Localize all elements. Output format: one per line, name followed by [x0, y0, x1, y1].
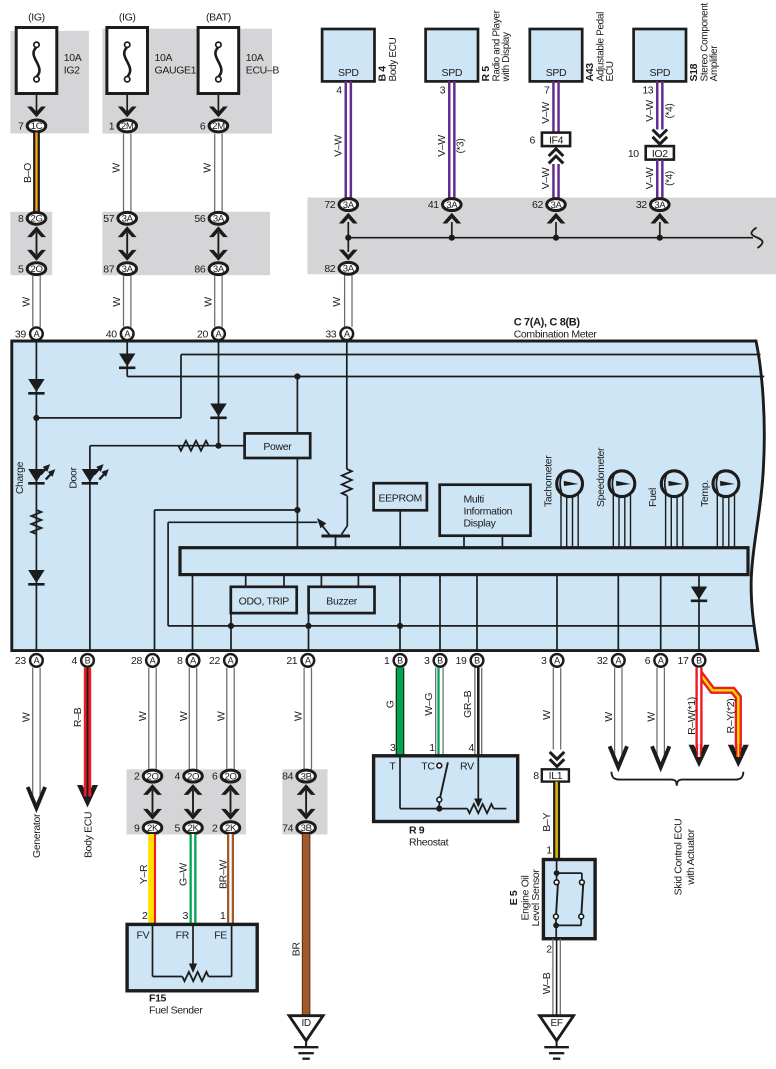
- wire W-B: [553, 939, 560, 1016]
- svg-text:G–W: G–W: [178, 863, 190, 886]
- ECU box R 5: [426, 29, 478, 81]
- label Rheostat: [409, 837, 449, 849]
- svg-text:3A: 3A: [446, 200, 458, 211]
- junction dot: [657, 235, 663, 241]
- svg-text:A: A: [228, 656, 234, 666]
- terminal label FR: [176, 929, 190, 941]
- meter terminal 23 A (bottom): [15, 654, 43, 667]
- meter terminal 8 A (bottom): [177, 654, 199, 667]
- svg-text:21: 21: [286, 655, 297, 667]
- ground EF: [540, 1016, 574, 1059]
- svg-text:R 5: R 5: [480, 66, 492, 82]
- connector pair arrows at x=36.5: [27, 226, 46, 260]
- wire W to 2O connector: [149, 668, 156, 771]
- wire W to meter terminal: [33, 275, 40, 327]
- svg-text:6: 6: [530, 134, 536, 146]
- label F15: [149, 993, 167, 1005]
- gauge Tachometer: [557, 471, 583, 548]
- wire B-Y: [553, 782, 560, 860]
- svg-text:ODO, TRIP: ODO, TRIP: [239, 595, 290, 607]
- connector 2 2K: [212, 822, 240, 835]
- svg-text:(*3): (*3): [456, 139, 467, 154]
- meter terminal 1 B (bottom): [384, 654, 406, 667]
- svg-text:8: 8: [177, 655, 183, 667]
- wire 40A vertical: [126, 341, 128, 377]
- svg-text:IL1: IL1: [549, 770, 563, 782]
- arrow below connector 32 3A: [650, 213, 669, 238]
- ECU box S18: [634, 29, 686, 81]
- wire bus to 32A: [617, 575, 619, 651]
- ECU box A43: [530, 29, 582, 81]
- wire bus to 17B: [698, 575, 700, 651]
- svg-text:S18: S18: [688, 63, 700, 81]
- fuse 10A ECU&#8211;B: [198, 28, 239, 94]
- svg-text:V–W: V–W: [332, 135, 344, 157]
- svg-text:3: 3: [424, 655, 430, 667]
- connector 5 2K: [175, 822, 203, 835]
- gauge label Temp.: [699, 480, 711, 507]
- svg-text:1C: 1C: [31, 121, 43, 132]
- wire R-Y branch: [699, 673, 738, 751]
- wire W to meter terminal: [124, 275, 131, 327]
- wire bus to 6A: [660, 575, 662, 651]
- svg-text:W: W: [541, 710, 553, 720]
- connector 74 3B: [282, 822, 315, 835]
- svg-text:W: W: [331, 297, 343, 307]
- svg-text:W: W: [111, 163, 123, 173]
- svg-text:B–O: B–O: [22, 163, 34, 183]
- svg-text:2M: 2M: [212, 121, 225, 132]
- wire W from 32A: [615, 668, 622, 757]
- svg-text:W: W: [21, 297, 33, 307]
- wire V-W from B4: [346, 81, 351, 198]
- wire label W: [137, 711, 149, 721]
- wire label B-Y: [541, 813, 553, 832]
- wire break squiggle: [751, 228, 762, 249]
- brace skid control group: [612, 772, 744, 786]
- wire label BR-W: [217, 860, 229, 889]
- svg-text:(*4): (*4): [664, 171, 675, 186]
- svg-text:A: A: [216, 329, 222, 339]
- wire fuse ECU&#8211;B to connector: [217, 94, 219, 116]
- label Fuel Sender: [149, 1005, 203, 1017]
- connector shade band 3A pairs left: [102, 212, 270, 275]
- svg-text:1: 1: [546, 845, 552, 857]
- wire BR-W: [227, 834, 234, 924]
- svg-text:56: 56: [194, 213, 205, 225]
- svg-text:EF: EF: [551, 1018, 563, 1029]
- wire Buzzer stubs: [321, 575, 358, 587]
- wire label V-W (S18 upper): [644, 100, 656, 122]
- svg-text:84: 84: [282, 771, 293, 783]
- ECU box label B 4: [376, 37, 399, 81]
- wire label W (32A): [603, 712, 615, 722]
- svg-text:3: 3: [390, 742, 396, 754]
- connector shade box (IG2 fuse column): [10, 31, 89, 133]
- svg-text:RV: RV: [460, 761, 474, 773]
- wire label W: [111, 297, 123, 307]
- svg-text:FE: FE: [214, 929, 227, 941]
- connector 57 3A: [103, 212, 136, 225]
- wire W ECU-B segment: [215, 134, 222, 212]
- svg-text:28: 28: [131, 655, 142, 667]
- fuse value label 10A ECU&#8211;B: [246, 52, 280, 77]
- meter terminal 19 B (bottom): [456, 654, 484, 667]
- svg-text:86: 86: [194, 263, 205, 275]
- pin 13 of S18: [642, 85, 653, 97]
- svg-text:IF4: IF4: [549, 134, 564, 146]
- gauge Speedometer: [609, 471, 635, 548]
- svg-text:B: B: [85, 656, 91, 666]
- connector 7 1C: [18, 120, 46, 133]
- arrow double into IL1: [550, 752, 565, 767]
- connector pair arrows at x=218.4: [209, 226, 228, 260]
- junction dot 22A: [228, 623, 234, 629]
- wire MID stubs: [464, 536, 502, 548]
- svg-text:G: G: [384, 700, 396, 708]
- meter terminal 39 A: [15, 327, 43, 340]
- svg-text:17: 17: [678, 655, 689, 667]
- junction dot 21A: [305, 623, 311, 629]
- IC Buzzer: [309, 587, 375, 613]
- wire transistor base L: [168, 522, 317, 626]
- pin 3 rheostat: [390, 742, 396, 754]
- svg-text:10: 10: [628, 148, 639, 160]
- wire W from 21A: [304, 668, 311, 771]
- svg-text:R–B: R–B: [72, 707, 84, 727]
- svg-text:W: W: [202, 163, 214, 173]
- connector pair arrows 22O/92K: [143, 784, 162, 820]
- connector 72 3A: [324, 199, 357, 212]
- svg-text:A: A: [554, 656, 560, 666]
- svg-text:Multi: Multi: [464, 494, 484, 506]
- wire label R-W(*1): [686, 697, 698, 735]
- svg-text:2: 2: [212, 822, 218, 834]
- wire 39A vertical: [35, 341, 37, 651]
- wire ODO to 22A: [230, 613, 232, 651]
- wire label W (21A): [293, 711, 305, 721]
- fuse label (IG): [28, 12, 45, 24]
- ECU box B 4: [322, 29, 374, 81]
- svg-text:A: A: [124, 329, 130, 339]
- svg-text:E 5: E 5: [508, 890, 520, 905]
- connector pair arrows 84/74 3B: [297, 784, 316, 820]
- fuse 10A GAUGE1: [107, 28, 148, 94]
- wire V-W from S18 upper: [657, 81, 662, 129]
- svg-text:FR: FR: [176, 929, 190, 941]
- pin 1 oil sensor: [546, 845, 552, 857]
- svg-text:A: A: [305, 656, 311, 666]
- wire label R-B: [72, 707, 84, 727]
- label Door: [68, 466, 80, 488]
- diode D1 (39A): [28, 379, 44, 393]
- rheostat internals: [400, 756, 506, 813]
- svg-text:2O: 2O: [30, 264, 42, 275]
- svg-text:1: 1: [220, 910, 226, 922]
- svg-text:(IG): (IG): [28, 12, 45, 24]
- ECU box label R 5: [480, 9, 512, 82]
- connector shade box (GAUGE1/ECU-B fuse columns): [102, 29, 272, 134]
- label Level Sensor: [530, 869, 542, 927]
- svg-text:32: 32: [636, 199, 647, 211]
- connector pair arrows 42O/52K: [184, 784, 203, 820]
- wire W to meter terminal: [215, 275, 222, 327]
- wire V-W from IF4 lower: [553, 164, 558, 199]
- svg-text:2: 2: [134, 771, 140, 783]
- connector 8 IL1: [533, 769, 569, 782]
- svg-text:20: 20: [197, 328, 208, 340]
- svg-text:1: 1: [429, 742, 435, 754]
- ground ID: [289, 1016, 323, 1059]
- svg-text:3: 3: [183, 910, 189, 922]
- svg-text:A: A: [190, 656, 196, 666]
- connector 82 3A: [324, 262, 357, 275]
- svg-text:with Display: with Display: [501, 32, 512, 82]
- junction dot: [553, 235, 559, 241]
- IC EEPROM: [374, 483, 427, 510]
- junction dot 1B: [397, 623, 403, 629]
- svg-text:Fuel: Fuel: [647, 488, 659, 507]
- svg-text:3: 3: [440, 85, 446, 97]
- svg-text:10A: 10A: [64, 52, 82, 64]
- svg-text:Y–R: Y–R: [138, 864, 150, 884]
- svg-text:B: B: [474, 656, 480, 666]
- svg-text:1: 1: [384, 655, 390, 667]
- svg-text:ID: ID: [301, 1018, 310, 1029]
- connector 6 2O: [212, 770, 240, 783]
- svg-text:2: 2: [546, 943, 552, 955]
- svg-text:V–W: V–W: [540, 102, 552, 124]
- node junction 20A/power: [215, 443, 221, 449]
- svg-text:10A: 10A: [246, 52, 264, 64]
- arrow into connector 2M: [118, 107, 137, 118]
- gauge Fuel: [661, 471, 687, 548]
- wire R-W from 17B: [695, 668, 702, 750]
- svg-text:B: B: [397, 656, 403, 666]
- wire label Y-R: [138, 864, 150, 884]
- svg-text:3A: 3A: [654, 200, 666, 211]
- internal rail upper: [181, 354, 761, 356]
- meter terminal 17 B (bottom): [678, 654, 706, 667]
- svg-text:9: 9: [134, 822, 140, 834]
- wire V-W from R5: [449, 81, 454, 198]
- svg-text:B 4: B 4: [376, 66, 388, 82]
- svg-text:Information: Information: [464, 506, 513, 518]
- svg-text:ECU–B: ECU–B: [246, 65, 280, 77]
- svg-text:Speedometer: Speedometer: [595, 447, 607, 507]
- pin 2 fuel sender: [142, 910, 148, 922]
- connector 6 IF4: [530, 133, 571, 147]
- wire label W (GAUGE1): [111, 163, 123, 173]
- wire bus to 1B: [399, 575, 401, 651]
- arrow 6A skid: [652, 746, 669, 767]
- ECU box label A43: [584, 12, 616, 82]
- pin 4 rheostat: [469, 742, 475, 754]
- wire label W: [331, 297, 343, 307]
- svg-text:3A: 3A: [213, 214, 225, 225]
- fuse 10A IG2: [16, 28, 57, 94]
- svg-text:A: A: [34, 656, 40, 666]
- connector shade band 3A right: [307, 198, 776, 275]
- meter terminal 21 A (bottom): [286, 654, 314, 667]
- arrow below connector 62 3A: [547, 213, 566, 238]
- svg-text:W: W: [20, 712, 32, 722]
- svg-text:SPD: SPD: [546, 67, 567, 79]
- arrow to Body ECU: [77, 785, 98, 808]
- wire label W: [216, 711, 228, 721]
- resistor R (charge): [31, 510, 41, 534]
- svg-text:A: A: [150, 656, 156, 666]
- svg-text:Body ECU: Body ECU: [83, 812, 95, 858]
- svg-text:(*4): (*4): [664, 104, 675, 119]
- svg-text:W: W: [178, 711, 190, 721]
- svg-text:Power: Power: [263, 441, 292, 453]
- fuse label (BAT): [206, 12, 231, 24]
- svg-text:Amplifier: Amplifier: [709, 45, 720, 82]
- svg-text:2M: 2M: [121, 121, 134, 132]
- svg-text:R 9: R 9: [409, 825, 425, 837]
- svg-text:(BAT): (BAT): [206, 12, 231, 24]
- combination meter body C7/C8: [12, 341, 765, 651]
- connector shade band 3B/3B: [282, 769, 327, 834]
- svg-text:IO2: IO2: [652, 148, 668, 160]
- wire label V-W (R5): [436, 135, 448, 157]
- wire G: [396, 668, 405, 756]
- gauge Temp.: [713, 471, 739, 548]
- gauge label Speedometer: [595, 447, 607, 507]
- svg-text:Buzzer: Buzzer: [326, 595, 357, 607]
- svg-text:72: 72: [324, 199, 335, 211]
- svg-text:3A: 3A: [122, 214, 134, 225]
- svg-text:W: W: [137, 711, 149, 721]
- wire lower horizontal rail: [168, 625, 753, 627]
- svg-text:GR–B: GR–B: [462, 690, 474, 718]
- label Charge: [14, 461, 26, 494]
- wire W to meter terminal: [345, 275, 352, 327]
- connector 10 IO2: [628, 146, 674, 160]
- terminal label T: [389, 761, 396, 773]
- internal bus bar: [180, 548, 748, 575]
- svg-text:3A: 3A: [343, 200, 355, 211]
- svg-text:Display: Display: [464, 518, 497, 530]
- wire label W: [202, 297, 214, 307]
- wire fuse IG2 to connector: [36, 94, 38, 116]
- svg-text:Skid Control ECU: Skid Control ECU: [673, 819, 685, 896]
- svg-text:62: 62: [532, 199, 543, 211]
- fuse label (IG): [119, 12, 136, 24]
- wire resistor rail: [90, 445, 245, 447]
- svg-text:3A: 3A: [343, 264, 355, 275]
- svg-text:2: 2: [142, 910, 148, 922]
- label Body ECU: [83, 812, 95, 858]
- wire B-O segment: [33, 133, 40, 212]
- wire label W (generator): [20, 712, 32, 722]
- connector 84 3B: [282, 770, 315, 783]
- wire ODO stubs: [246, 575, 284, 587]
- arrow into connector 2M: [209, 107, 228, 118]
- label E 5: [508, 890, 520, 905]
- meter terminal 40 A: [106, 327, 134, 340]
- svg-text:2O: 2O: [187, 771, 199, 782]
- wire label (*3): [456, 139, 467, 154]
- wire GR-B: [475, 668, 482, 756]
- wire label B-O: [22, 163, 34, 183]
- meter terminal 32 A (bottom): [597, 654, 625, 667]
- connector 56 3A: [194, 212, 227, 225]
- svg-text:Charge: Charge: [14, 461, 26, 494]
- connector 4 2O: [175, 770, 203, 783]
- wire label W-G: [423, 693, 435, 716]
- svg-text:87: 87: [103, 263, 114, 275]
- svg-text:BR–W: BR–W: [217, 860, 229, 889]
- svg-text:V–W: V–W: [644, 167, 656, 189]
- svg-text:22: 22: [209, 655, 220, 667]
- svg-text:8: 8: [18, 213, 24, 225]
- gauge label Fuel: [647, 488, 659, 507]
- wire label BR: [291, 942, 303, 957]
- transistor Q1: [317, 518, 350, 548]
- svg-text:W–G: W–G: [423, 693, 435, 716]
- wire bus to 19B: [476, 575, 478, 651]
- wire bus to 3B: [439, 575, 441, 651]
- label Skid Control ECU: [673, 819, 685, 896]
- wire label (*4) upper: [664, 104, 675, 119]
- svg-text:W: W: [293, 711, 305, 721]
- IC Power: [245, 433, 311, 458]
- svg-text:3A: 3A: [213, 264, 225, 275]
- svg-text:82: 82: [324, 263, 335, 275]
- svg-text:32: 32: [597, 655, 608, 667]
- arrow into connector 1C: [27, 107, 46, 118]
- meter terminal 22 A (bottom): [209, 654, 237, 667]
- wire junction bus (top right): [348, 237, 753, 239]
- wire W to 2O connector: [227, 668, 234, 771]
- combination meter title: [514, 316, 598, 340]
- arrow 17B R-W skid: [689, 744, 710, 767]
- svg-text:A: A: [344, 329, 350, 339]
- node junction 39A branch: [33, 415, 39, 421]
- wire Door vertical: [89, 446, 91, 651]
- svg-text:41: 41: [428, 199, 439, 211]
- pin 7 of A43: [544, 85, 550, 97]
- ECU box label S18: [688, 3, 720, 82]
- wire label W-B: [541, 972, 553, 994]
- diode D4 (20A): [210, 404, 226, 418]
- diode D2 (charge low): [28, 570, 44, 584]
- pin 2 oil sensor: [546, 943, 552, 955]
- wire label W (6A): [645, 712, 657, 722]
- svg-text:19: 19: [456, 655, 467, 667]
- svg-text:F15: F15: [149, 993, 167, 1005]
- meter terminal 3 B (bottom): [424, 654, 446, 667]
- wire power top vertical: [294, 373, 300, 433]
- svg-text:Door: Door: [68, 466, 80, 488]
- svg-text:with Actuator: with Actuator: [685, 828, 697, 885]
- svg-text:B: B: [696, 656, 702, 666]
- wire EEPROM down: [399, 510, 401, 547]
- svg-text:39: 39: [15, 328, 26, 340]
- gauge label Tachometer: [543, 455, 555, 507]
- svg-text:V–W: V–W: [436, 135, 448, 157]
- pin 1 rheostat: [429, 742, 435, 754]
- terminal label RV: [460, 761, 474, 773]
- label Engine Oil: [520, 876, 532, 921]
- wire 28A feed: [155, 510, 298, 651]
- arrow below connector 72 3A: [339, 213, 358, 238]
- arrow 32A skid: [610, 746, 627, 767]
- svg-text:Combination Meter: Combination Meter: [514, 328, 598, 340]
- wire power bottom vertical: [296, 458, 298, 548]
